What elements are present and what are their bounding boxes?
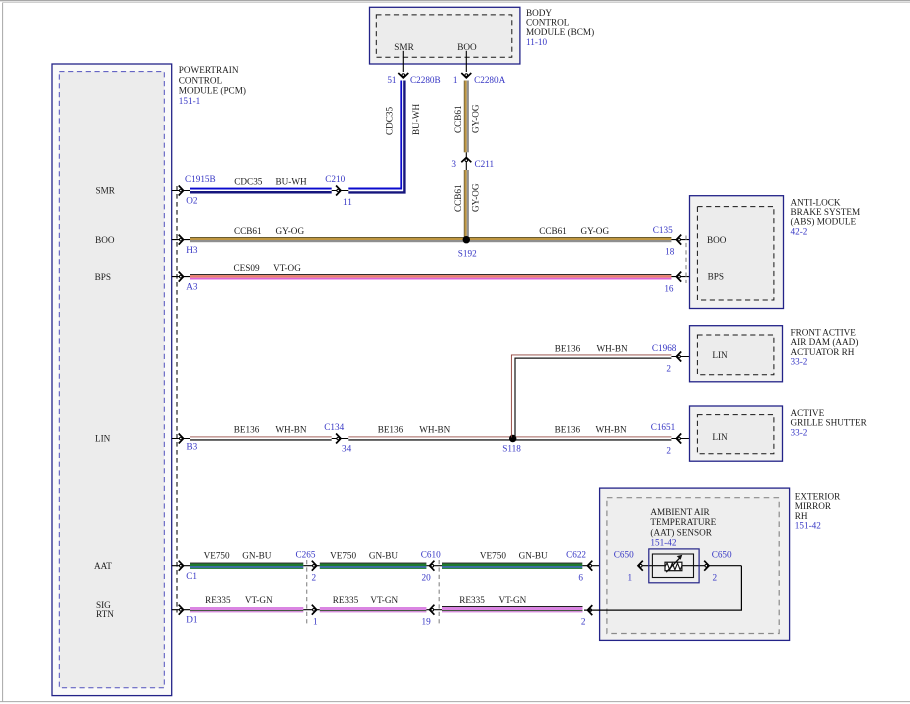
PCM title text bbox=[179, 65, 246, 106]
svg-text:BU-WH: BU-WH bbox=[411, 104, 421, 135]
inline connector C610 arrow pin 19 bbox=[426, 609, 442, 611]
PCM inner dashed connector boundary bbox=[59, 72, 164, 688]
connector C135 dashed face at ABS bbox=[685, 236, 687, 284]
wire VE750 GN-BU segment C610 to C622 bbox=[442, 563, 582, 564]
connector C2280A arrow (down) pin 1 bbox=[461, 73, 471, 78]
svg-text:6: 6 bbox=[578, 573, 583, 583]
connector C650 pin 1 arrow bbox=[638, 561, 643, 571]
ABS inner dashed connector boundary bbox=[697, 207, 774, 300]
svg-text:1: 1 bbox=[628, 573, 633, 583]
module exterior mirror box bbox=[600, 488, 790, 640]
svg-text:MODULE (PCM): MODULE (PCM) bbox=[179, 86, 246, 96]
svg-text:20: 20 bbox=[422, 573, 432, 583]
PCM BOO pin lead and arrow H3 bbox=[172, 239, 190, 241]
svg-text:WH-BN: WH-BN bbox=[275, 425, 306, 435]
svg-text:C135: C135 bbox=[653, 225, 673, 235]
svg-text:C265: C265 bbox=[296, 550, 316, 560]
PCM LIN pin lead and arrow B3 bbox=[172, 438, 190, 440]
svg-text:CCB61: CCB61 bbox=[453, 184, 463, 212]
wire RE335 VT-GN segment PCM SIG RTN pin D1 to C265 bbox=[190, 607, 303, 610]
svg-text:VT-GN: VT-GN bbox=[245, 595, 273, 605]
PCM SIG RTN pin lead and arrow D1 bbox=[172, 609, 190, 611]
svg-text:VE750: VE750 bbox=[330, 551, 356, 561]
connector C2280B arrow (down) pin 51 bbox=[398, 73, 408, 78]
svg-text:VT-GN: VT-GN bbox=[370, 595, 398, 605]
grille inner dashed connector boundary bbox=[697, 415, 774, 454]
svg-text:H3: H3 bbox=[186, 245, 198, 255]
ABS title text bbox=[791, 197, 861, 236]
svg-text:C2280B: C2280B bbox=[410, 75, 441, 85]
AAD LIN pin lead and arrow C1968 pin 2 bbox=[671, 356, 689, 358]
svg-text:18: 18 bbox=[665, 247, 675, 257]
wire VE750 GN-BU segment PCM AAT pin C1 to C265 bbox=[190, 563, 303, 564]
svg-text:GY-OG: GY-OG bbox=[581, 226, 610, 236]
svg-text:(ABS) MODULE: (ABS) MODULE bbox=[791, 217, 857, 227]
wire CCB61 GY-OG vertical from C211 to splice S192 bbox=[463, 170, 466, 240]
svg-text:42-2: 42-2 bbox=[791, 226, 808, 236]
svg-text:ACTIVE: ACTIVE bbox=[791, 408, 825, 418]
svg-text:D1: D1 bbox=[186, 615, 198, 625]
wire BE136 WH-BN segment PCM LIN pin B3 to C134 bbox=[190, 436, 332, 439]
svg-text:2: 2 bbox=[666, 364, 671, 374]
wire BE136 WH-BN branch from S118 up to AAD actuator C1968 bbox=[511, 355, 671, 438]
svg-text:BOO: BOO bbox=[95, 235, 115, 245]
svg-text:FRONT ACTIVE: FRONT ACTIVE bbox=[791, 328, 857, 338]
svg-text:C210: C210 bbox=[325, 174, 345, 184]
svg-text:C650: C650 bbox=[614, 550, 634, 560]
svg-text:AIR DAM (AAD): AIR DAM (AAD) bbox=[791, 337, 859, 347]
module PCM box (Powertrain Control Module) bbox=[52, 64, 172, 696]
inline connector C610 arrow pins 20/19 bbox=[426, 565, 442, 567]
svg-text:BPS: BPS bbox=[95, 272, 111, 282]
AAT sensor symbol inner box bbox=[652, 554, 693, 578]
svg-text:ACTUATOR RH: ACTUATOR RH bbox=[791, 347, 855, 357]
svg-text:LIN: LIN bbox=[712, 350, 728, 360]
svg-text:11-10: 11-10 bbox=[526, 37, 547, 47]
svg-text:2: 2 bbox=[312, 573, 317, 583]
svg-text:RE335: RE335 bbox=[205, 595, 231, 605]
svg-text:S192: S192 bbox=[458, 248, 477, 258]
svg-text:GN-BU: GN-BU bbox=[242, 551, 271, 561]
connector C1915B dashed face line at PCM bbox=[176, 186, 178, 613]
module grille shutter box (Active Grille Shutter) bbox=[690, 406, 783, 461]
AAT sensor wire through mirror bbox=[638, 565, 741, 567]
svg-text:TEMPERATURE: TEMPERATURE bbox=[650, 517, 716, 527]
svg-text:A3: A3 bbox=[186, 282, 198, 292]
svg-text:BE136: BE136 bbox=[555, 425, 581, 435]
ABS BOO pin lead and arrow C135 pin 18 bbox=[671, 239, 689, 241]
svg-text:LIN: LIN bbox=[712, 432, 728, 442]
svg-text:C1915B: C1915B bbox=[185, 174, 216, 184]
svg-text:S118: S118 bbox=[502, 444, 521, 454]
mirror inner dashed boundary bbox=[607, 498, 779, 634]
wire CCB61 GY-OG horizontal PCM BOO pin H3 to ABS C135 bbox=[190, 236, 671, 239]
svg-text:C622: C622 bbox=[566, 550, 586, 560]
inline connector C610 dashed face bbox=[438, 560, 440, 624]
svg-text:C2280A: C2280A bbox=[474, 75, 506, 85]
svg-text:VE750: VE750 bbox=[480, 551, 506, 561]
wire VE750 GN-BU segment C265 to C610 bbox=[320, 563, 427, 564]
svg-text:151-42: 151-42 bbox=[795, 521, 821, 531]
wire CDC35 BU-WH vertical from BCM C2280B down and SMR horizontal to PCM; corner bbox=[348, 81, 401, 189]
wire CDC35 BU-WH segment PCM SMR pin O2 to C210 bbox=[190, 188, 332, 190]
svg-text:WH-BN: WH-BN bbox=[419, 425, 450, 435]
svg-text:CCB61: CCB61 bbox=[539, 226, 567, 236]
svg-text:151-42: 151-42 bbox=[650, 538, 676, 548]
inline connector C210 pin 11 arrow bbox=[332, 190, 349, 192]
module BCM box (Body Control Module) bbox=[370, 7, 520, 64]
svg-text:CDC35: CDC35 bbox=[385, 107, 395, 135]
svg-text:34: 34 bbox=[342, 444, 352, 454]
svg-text:RE335: RE335 bbox=[459, 595, 485, 605]
svg-text:CES09: CES09 bbox=[234, 263, 260, 273]
AAD inner dashed connector boundary bbox=[697, 335, 774, 375]
svg-text:MODULE (BCM): MODULE (BCM) bbox=[526, 27, 594, 37]
inline connector C211 pin 3 arrow (up) bbox=[465, 152, 467, 170]
svg-text:BU-WH: BU-WH bbox=[276, 176, 307, 186]
svg-text:2: 2 bbox=[581, 617, 586, 627]
inline connector C265 arrow pins 2/1 bbox=[303, 565, 320, 567]
inline connector C134 pin 34 arrow bbox=[332, 438, 349, 440]
svg-text:C610: C610 bbox=[421, 550, 441, 560]
svg-text:CCB61: CCB61 bbox=[234, 226, 262, 236]
svg-text:BRAKE SYSTEM: BRAKE SYSTEM bbox=[791, 207, 861, 217]
svg-text:16: 16 bbox=[664, 283, 674, 293]
svg-text:33-2: 33-2 bbox=[791, 357, 808, 367]
module ABS box (Anti-Lock Brake System) bbox=[690, 196, 784, 309]
svg-text:1: 1 bbox=[453, 75, 458, 85]
svg-text:POWERTRAIN: POWERTRAIN bbox=[179, 65, 239, 75]
svg-text:CCB61: CCB61 bbox=[453, 105, 463, 133]
svg-text:SMR: SMR bbox=[394, 42, 414, 52]
svg-text:3: 3 bbox=[451, 159, 456, 169]
svg-text:BE136: BE136 bbox=[234, 425, 260, 435]
wire CCB61 GY-OG vertical from BCM C2280A to C211 bbox=[463, 81, 466, 153]
wire RE335 VT-GN segment C610 to C650 (black over violet) bbox=[442, 605, 583, 607]
svg-text:BE136: BE136 bbox=[378, 425, 404, 435]
PCM pin name SIG RTN bbox=[96, 600, 114, 619]
AAT sensor return wire loop bbox=[584, 566, 741, 610]
svg-text:GN-BU: GN-BU bbox=[519, 551, 548, 561]
svg-text:BPS: BPS bbox=[708, 272, 724, 282]
svg-text:C1651: C1651 bbox=[651, 422, 676, 432]
wire BE136 WH-BN segment C134 to grille shutter C1651 bbox=[348, 436, 671, 439]
AAT thermistor resistor element bbox=[665, 562, 682, 571]
svg-text:BE136: BE136 bbox=[555, 343, 581, 353]
svg-text:VE750: VE750 bbox=[204, 551, 230, 561]
svg-text:CDC35: CDC35 bbox=[234, 176, 262, 186]
connector C650 pin 2 arrow bbox=[704, 561, 709, 571]
svg-text:GY-OG: GY-OG bbox=[471, 183, 481, 212]
svg-text:SMR: SMR bbox=[96, 186, 116, 196]
svg-text:51: 51 bbox=[387, 75, 397, 85]
svg-text:B3: B3 bbox=[187, 442, 198, 452]
svg-text:C1: C1 bbox=[186, 571, 197, 581]
svg-text:2: 2 bbox=[713, 573, 718, 583]
PCM BPS pin lead and arrow A3 bbox=[172, 276, 190, 278]
svg-text:GY-OG: GY-OG bbox=[276, 226, 305, 236]
svg-text:151-1: 151-1 bbox=[179, 96, 201, 106]
AAT sensor title text bbox=[650, 507, 716, 548]
splice S118 bbox=[509, 435, 516, 442]
svg-text:ANTI-LOCK: ANTI-LOCK bbox=[791, 197, 841, 207]
module AAD box (Front Active Air Dam Actuator RH) bbox=[690, 326, 783, 382]
svg-text:BOO: BOO bbox=[457, 42, 477, 52]
svg-text:AMBIENT AIR: AMBIENT AIR bbox=[650, 507, 710, 517]
grille shutter title text bbox=[791, 408, 868, 437]
splice S192 bbox=[463, 236, 470, 243]
svg-text:C650: C650 bbox=[712, 550, 732, 560]
svg-text:RE335: RE335 bbox=[333, 595, 359, 605]
svg-text:LIN: LIN bbox=[95, 434, 111, 444]
BCM SMR pin lead wire bbox=[402, 51, 404, 72]
BCM title text bbox=[526, 8, 594, 47]
svg-text:GN-BU: GN-BU bbox=[369, 551, 398, 561]
svg-text:CONTROL: CONTROL bbox=[179, 75, 223, 85]
svg-text:AAT: AAT bbox=[94, 561, 112, 571]
svg-text:C134: C134 bbox=[324, 422, 344, 432]
svg-text:19: 19 bbox=[422, 617, 432, 627]
svg-text:33-2: 33-2 bbox=[791, 427, 808, 437]
svg-text:RTN: RTN bbox=[96, 609, 114, 619]
AAD title text bbox=[791, 328, 859, 367]
svg-text:RH: RH bbox=[795, 511, 808, 521]
AAT thermistor diagonal arrow bbox=[666, 558, 680, 573]
BCM BOO pin lead wire bbox=[465, 51, 467, 72]
mirror return arrow pin 2 bbox=[588, 605, 593, 615]
svg-text:C1968: C1968 bbox=[652, 343, 677, 353]
svg-text:O2: O2 bbox=[186, 196, 198, 206]
connector C622 pin 6 arrow into mirror bbox=[582, 565, 649, 567]
svg-text:VT-GN: VT-GN bbox=[499, 595, 527, 605]
svg-text:GRILLE SHUTTER: GRILLE SHUTTER bbox=[791, 418, 868, 428]
svg-text:11: 11 bbox=[343, 197, 352, 207]
svg-text:C211: C211 bbox=[475, 159, 495, 169]
svg-text:BODY: BODY bbox=[526, 8, 552, 18]
BCM inner dashed connector boundary bbox=[376, 15, 512, 57]
PCM SMR pin lead and arrow O2 bbox=[172, 190, 190, 192]
grille shutter LIN pin lead and arrow C1651 pin 2 bbox=[671, 438, 689, 440]
svg-text:CONTROL: CONTROL bbox=[526, 18, 570, 28]
wire CES09 VT-OG PCM BPS pin A3 to ABS C135 pin 16 bbox=[190, 274, 671, 275]
mirror title text bbox=[795, 491, 841, 530]
svg-text:GY-OG: GY-OG bbox=[471, 104, 481, 133]
svg-text:EXTERIOR: EXTERIOR bbox=[795, 491, 841, 501]
svg-text:(AAT) SENSOR: (AAT) SENSOR bbox=[650, 527, 712, 537]
PCM AAT pin lead and arrow C1 bbox=[172, 565, 190, 567]
inline connector C265 arrow pin 1 bbox=[303, 609, 320, 611]
ABS BPS pin lead and arrow pin 16 bbox=[671, 276, 689, 278]
inline connector C265 dashed face bbox=[306, 560, 308, 624]
svg-text:BOO: BOO bbox=[707, 235, 727, 245]
wire RE335 VT-GN segment C265 to C610 bbox=[320, 607, 427, 610]
AAT sensor symbol outer box U1 bbox=[649, 549, 699, 583]
svg-text:2: 2 bbox=[666, 446, 671, 456]
svg-text:VT-OG: VT-OG bbox=[273, 263, 301, 273]
svg-text:1: 1 bbox=[313, 617, 318, 627]
svg-text:WH-BN: WH-BN bbox=[597, 343, 628, 353]
svg-text:WH-BN: WH-BN bbox=[596, 425, 627, 435]
svg-text:MIRROR: MIRROR bbox=[795, 501, 832, 511]
